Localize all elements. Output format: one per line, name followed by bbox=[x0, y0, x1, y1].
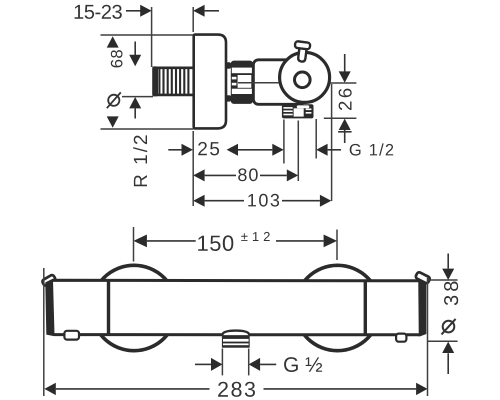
right handle lever tab bbox=[415, 271, 431, 283]
check valve tab right bbox=[396, 334, 406, 342]
dimension 283 label bbox=[218, 382, 255, 397]
extension line outlet right edge bbox=[315, 119, 317, 159]
axis line right of cartridge bbox=[312, 82, 357, 84]
extension line outlet left edge bbox=[283, 120, 285, 164]
dimension 15-23 left arrow bbox=[126, 10, 141, 12]
dimension 150 left extension bbox=[133, 227, 135, 262]
outlet block top slot bbox=[297, 105, 310, 108]
thread R1/2 upper arrow bbox=[134, 42, 136, 56]
check valve tab left bbox=[64, 331, 79, 340]
pipe union left end cap bbox=[152, 66, 158, 96]
label G ½ bbox=[284, 357, 322, 372]
union nut body bbox=[231, 61, 253, 104]
bar left end cap bbox=[47, 280, 55, 334]
extension line aerator left bbox=[221, 349, 223, 376]
aerator dome bbox=[222, 331, 249, 336]
thread R1/2 lower arrow bbox=[129, 97, 141, 108]
pipe union top edge bbox=[153, 67, 194, 70]
dimension 150 label bbox=[198, 235, 233, 251]
left escutcheon circle bbox=[91, 265, 176, 350]
dimension 25 left arrow bbox=[168, 149, 181, 151]
dimension Ø68 bottom arrow bbox=[107, 116, 119, 127]
dimension 80 arrows bbox=[193, 169, 204, 181]
thread label R 1/2 (rotated) bbox=[133, 135, 147, 186]
dimension 103 label bbox=[248, 194, 279, 207]
dimension 283 right arrow bbox=[264, 388, 417, 390]
valve body block bbox=[253, 60, 304, 105]
left handle lever tab bbox=[42, 274, 57, 286]
top nipple neck bbox=[298, 46, 307, 62]
pipe union bottom edge bbox=[153, 94, 194, 97]
cartridge inner circle bbox=[295, 72, 311, 88]
dimension Ø38 top arrow bbox=[447, 254, 449, 269]
dimension 150 right arrow bbox=[276, 240, 324, 242]
dimension 103 arrows bbox=[193, 195, 204, 207]
escutcheon disc (side view) bbox=[194, 35, 226, 129]
extension line wall plane (15-23 left) bbox=[151, 7, 153, 67]
dimension Ø38 bottom extension bbox=[428, 340, 458, 342]
extension line disc back plane lower bbox=[192, 131, 194, 206]
valve body circle bbox=[280, 52, 330, 102]
extension line 283 right bbox=[427, 278, 429, 396]
dimension Ø68 top arrow bbox=[107, 36, 119, 47]
right escutcheon circle bbox=[295, 265, 380, 350]
outlet block left ribs bbox=[283, 107, 292, 109]
dimension 150 right extension bbox=[336, 230, 338, 261]
union nut white stripes bbox=[232, 68, 252, 74]
dimension Ø38 top extension bbox=[428, 279, 458, 281]
axis line through nut and body bbox=[238, 82, 293, 84]
dimension 25 right arrow with shared tail bbox=[227, 144, 238, 156]
dimension 283 left arrow bbox=[44, 383, 55, 395]
tick on 26 arrow shaft bbox=[338, 131, 352, 133]
extension line disc bottom bbox=[101, 128, 194, 130]
dimension Ø38 label Ø (drawn) bbox=[443, 321, 455, 333]
joint line left bbox=[107, 282, 110, 334]
dimension 26 lower arrow bbox=[339, 119, 351, 130]
neck tab lower bbox=[226, 95, 232, 101]
pipe union threads bbox=[159, 69, 188, 95]
extension line pipe bottom bbox=[122, 96, 153, 98]
mixer body bar bbox=[47, 280, 425, 335]
extension line outlet axis bbox=[324, 117, 357, 119]
top nipple cap bbox=[295, 41, 311, 49]
joint line right bbox=[364, 282, 367, 334]
extension line disc top bbox=[101, 34, 194, 36]
outlet block center notch bbox=[294, 108, 304, 116]
dimension Ø68 label Ø (drawn) bbox=[108, 95, 119, 106]
dimension G1/2 right arrow bbox=[316, 144, 327, 156]
dimension Ø38 bottom arrow bbox=[442, 342, 454, 353]
dimension 25 label bbox=[198, 142, 219, 156]
dimension 150 tolerance bbox=[241, 232, 270, 241]
dimension 150 left arrow bbox=[134, 235, 147, 248]
extension line aerator right bbox=[248, 349, 250, 376]
dimension 26 label (rotated) bbox=[339, 89, 352, 110]
dimension 26 upper arrow bbox=[344, 54, 346, 72]
dimension 80 label bbox=[238, 168, 258, 181]
extension line 283 left bbox=[43, 268, 45, 396]
dimension Ø68 label 68 (rotated) bbox=[111, 50, 123, 67]
outlet block right ribs bbox=[306, 109, 312, 111]
extension line disc back plane upper bbox=[192, 7, 194, 32]
aerator striped body bbox=[222, 335, 250, 347]
neck tab upper bbox=[226, 62, 232, 68]
dimension Ø38 label 38 (rotated) bbox=[444, 282, 458, 306]
dimension 15-23 label bbox=[75, 5, 122, 19]
dimension G½ right arrow bbox=[249, 358, 260, 371]
dimension 15-23 right arrow bbox=[193, 5, 204, 17]
label G 1/2 (top view) bbox=[350, 143, 394, 155]
extension line valve front bbox=[331, 84, 333, 201]
dimension G½ left arrow bbox=[195, 363, 211, 365]
outlet block below valve bbox=[282, 104, 314, 118]
extension line outlet center bbox=[297, 121, 299, 182]
bar right end cap bbox=[420, 281, 425, 335]
